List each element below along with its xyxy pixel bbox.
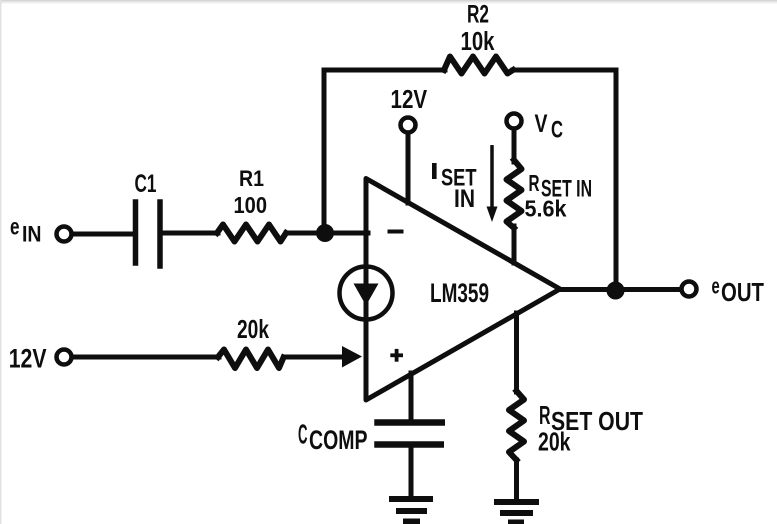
svg-text:R: R: [529, 170, 540, 196]
capacitor C1: [136, 202, 161, 266]
wire right vertical feedback to output node: [614, 70, 619, 290]
wire op-amp bottom edge to CCOMP: [409, 373, 414, 420]
node A junction at inverting input: [316, 224, 334, 242]
op-amp plus input sign: [392, 351, 401, 360]
resistor R2: [444, 57, 513, 74]
label eIN: [10, 214, 42, 247]
svg-text:100: 100: [234, 192, 268, 218]
wire eIN to C1: [73, 232, 134, 237]
wire VC to RSETIN: [512, 130, 517, 162]
svg-text:10k: 10k: [461, 28, 496, 56]
wire CCOMP to ground: [409, 447, 414, 499]
node B output junction: [607, 282, 625, 300]
wire top right feedback: [513, 68, 616, 73]
svg-text:IN: IN: [22, 222, 42, 247]
wire RSETIN to op-amp top edge: [512, 226, 517, 263]
label eOUT: [712, 274, 765, 308]
svg-text:e: e: [10, 214, 20, 240]
op-amp minus input sign: [390, 230, 402, 234]
wire RSETOUT to ground: [514, 460, 519, 499]
svg-text:R: R: [539, 400, 551, 430]
svg-text:20k: 20k: [538, 427, 571, 457]
wire 20k to op-amp plus input with arrow: [287, 355, 344, 360]
svg-text:12V: 12V: [391, 86, 428, 114]
ground for CCOMP: [392, 499, 430, 522]
wire C1 to R1: [163, 231, 218, 236]
wire 12V to op-amp top edge: [406, 134, 411, 203]
svg-text:12V: 12V: [9, 343, 47, 373]
svg-text:COMP: COMP: [309, 425, 368, 455]
svg-text:IN: IN: [454, 185, 475, 213]
svg-text:C1: C1: [135, 170, 157, 198]
label RSET OUT: [539, 400, 643, 436]
svg-text:OUT: OUT: [721, 277, 764, 307]
resistor R1: [217, 225, 286, 242]
terminal VC: [507, 114, 522, 129]
capacitor CCOMP: [378, 423, 442, 445]
terminal 12V top: [401, 118, 416, 133]
label ISET IN: [432, 163, 477, 213]
wire R1 to op-amp inverting input: [286, 231, 368, 236]
wire op-amp bottom edge to RSETOUT: [514, 313, 519, 392]
terminal 12V bottom: [57, 350, 72, 365]
resistor 20k input: [218, 350, 284, 369]
terminal eIN: [57, 227, 72, 242]
resistor RSETOUT 20k: [509, 391, 524, 460]
svg-text:C: C: [298, 418, 308, 449]
svg-text:R2: R2: [467, 1, 489, 29]
wire op-amp output to eOUT: [560, 287, 678, 292]
wire 12V to 20k resistor: [73, 355, 219, 360]
svg-text:V: V: [535, 110, 548, 138]
svg-text:LM359: LM359: [430, 278, 489, 308]
wire node A up to feedback: [322, 70, 327, 233]
current source symbol on op-amp left edge: [340, 267, 393, 320]
resistor RSETIN 5.6k: [507, 160, 522, 228]
label RSET IN: [529, 170, 593, 203]
svg-text:R1: R1: [239, 166, 264, 191]
op-amp U1 LM359 triangle: [366, 179, 560, 401]
label CCOMP: [298, 418, 368, 455]
ground for RSETOUT: [497, 502, 536, 523]
annotation arrow ISET IN current: [490, 147, 494, 206]
svg-text:C: C: [551, 117, 563, 144]
svg-text:e: e: [712, 274, 720, 299]
terminal eOUT: [682, 282, 697, 297]
svg-text:20k: 20k: [237, 314, 269, 344]
svg-text:5.6k: 5.6k: [525, 196, 567, 222]
label VC: [535, 110, 564, 144]
wire top left feedback: [324, 68, 445, 73]
